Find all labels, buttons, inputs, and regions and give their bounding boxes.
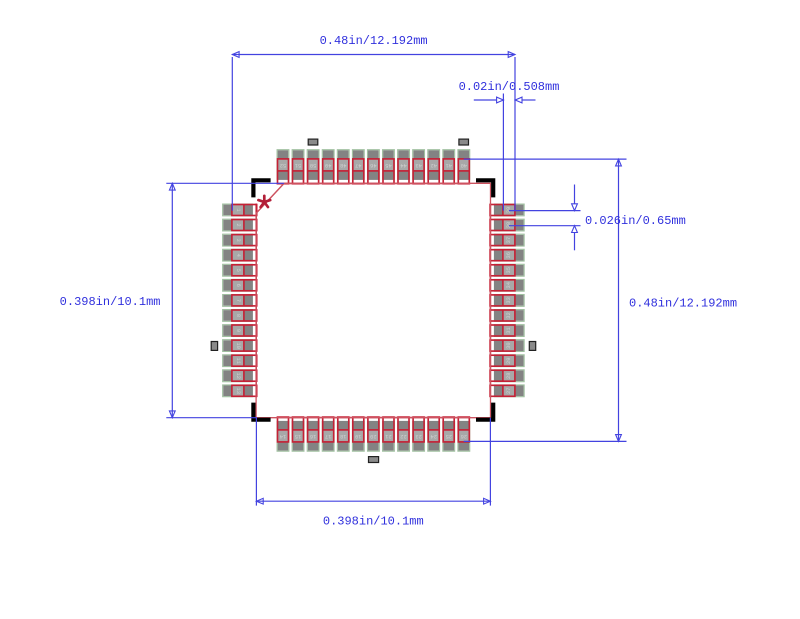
pad pin 29 (right) [490,355,524,367]
pad pin 34 (right) [490,279,524,291]
pad pin 35 (right) [490,264,524,276]
svg-text:21: 21 [385,433,391,439]
svg-text:40: 40 [461,162,467,168]
dimension top lead-span line [232,54,515,56]
svg-text:26: 26 [461,433,467,439]
dimension left body line [171,183,173,417]
svg-text:43: 43 [415,162,421,168]
pin row baseline top [277,183,471,185]
pad pin 2 (left) [223,219,257,231]
pad pin 33 (right) [490,295,524,307]
svg-text:36: 36 [506,252,512,258]
svg-text:3: 3 [235,238,241,241]
dimension top lead-span extension line right [514,57,516,211]
pad pin 9 (left) [223,325,257,337]
dimension pad-width arrow left [497,97,504,103]
svg-text:29: 29 [506,357,512,363]
pad pin 13 (left) [223,385,257,397]
svg-text:0.48in/12.192mm: 0.48in/12.192mm [629,297,737,311]
pad pin 44 (top) [398,150,410,184]
pad pin 25 (bottom) [443,417,455,451]
svg-text:33: 33 [506,297,512,303]
pin row baseline right [489,204,491,398]
dimension pitch extension line lower [509,225,581,227]
pad pin 6 (left) [223,279,257,291]
pad pin 24 (bottom) [428,417,440,451]
svg-text:41: 41 [446,162,452,168]
index square pin 50 (top) [308,139,318,145]
pad pin 32 (right) [490,310,524,322]
svg-text:12: 12 [235,373,241,379]
dimension left body extension line bottom [166,417,257,419]
pad pin 42 (top) [428,150,440,184]
svg-text:49: 49 [325,162,331,168]
svg-text:13: 13 [235,388,241,394]
pad pin 11 (left) [223,355,257,367]
svg-text:30: 30 [506,342,512,348]
pad pin 4 (left) [223,249,257,261]
pad pin 10 (left) [223,340,257,352]
pad pin 41 (top) [443,150,455,184]
dimension pitch line upper [574,185,576,204]
svg-text:24: 24 [430,433,436,439]
pad pin 23 (bottom) [413,417,425,451]
dimension pitch extension line upper [509,210,581,212]
pad pin 5 (left) [223,264,257,276]
pad pin 19 (bottom) [352,417,364,451]
pad pin 16 (bottom) [307,417,319,451]
svg-text:28: 28 [506,373,512,379]
svg-text:5: 5 [235,269,241,272]
pad pin 26 (bottom) [458,417,470,451]
svg-text:25: 25 [446,433,452,439]
pad pin 48 (top) [337,150,349,184]
dimension left arrow bottom [169,411,175,418]
dimension bottom body line [256,500,490,502]
svg-text:11: 11 [235,357,241,363]
pad pin 21 (bottom) [383,417,395,451]
pin-1 marker asterisk [258,196,270,207]
pad pin 31 (right) [490,325,524,337]
svg-text:8: 8 [235,314,241,317]
svg-text:46: 46 [370,162,376,168]
silkscreen corner mark bottom-left [251,403,270,422]
pad pin 17 (bottom) [322,417,334,451]
svg-text:16: 16 [310,433,316,439]
svg-text:0.48in/12.192mm: 0.48in/12.192mm [320,34,428,48]
pad pin 40 (top) [458,150,470,184]
svg-text:2: 2 [235,223,241,226]
svg-text:38: 38 [506,222,512,228]
svg-text:19: 19 [355,433,361,439]
svg-text:9: 9 [235,329,241,332]
pad pin 50 (top) [307,150,319,184]
svg-text:0.026in/0.65mm: 0.026in/0.65mm [585,214,686,228]
svg-text:47: 47 [355,162,361,168]
svg-text:23: 23 [415,433,421,439]
svg-text:0.02in/0.508mm: 0.02in/0.508mm [459,80,560,94]
index square pin 40 (top) [459,139,469,145]
dimension bottom arrow right [484,498,491,504]
svg-text:6: 6 [235,284,241,287]
pad pin 45 (top) [383,150,395,184]
svg-text:14: 14 [280,433,286,439]
svg-text:35: 35 [506,267,512,273]
pad pin 8 (left) [223,310,257,322]
pad pin 52 (top) [277,150,289,184]
svg-text:34: 34 [506,282,512,288]
dimension right arrow top [616,159,622,166]
svg-text:27: 27 [506,388,512,394]
svg-text:48: 48 [340,162,346,168]
pad pin 51 (top) [292,150,304,184]
dimension pad-width arrow right [515,97,522,103]
svg-text:42: 42 [430,162,436,168]
dimension pad-width extension line [502,94,504,211]
svg-text:44: 44 [400,162,406,168]
svg-text:1: 1 [235,208,241,211]
pad pin 38 (right) [490,219,524,231]
dimension top lead-span extension line left [231,57,233,211]
dimension left body extension line top [166,182,284,184]
dimension top arrow left [232,52,239,58]
dimension pitch line lower [574,233,576,251]
svg-text:51: 51 [295,162,301,168]
svg-text:50: 50 [310,162,316,168]
pad pin 27 (right) [490,385,524,397]
svg-text:52: 52 [280,162,286,168]
pad pin 1 (left) [223,204,257,216]
svg-text:20: 20 [370,433,376,439]
index square pin 20 (bottom) [369,457,379,463]
pin row baseline left [255,204,257,398]
svg-text:0.398in/10.1mm: 0.398in/10.1mm [60,295,161,309]
pad pin 49 (top) [322,150,334,184]
pad pin 43 (top) [413,150,425,184]
silkscreen corner mark bottom-right [476,403,495,422]
dimension right arrow bottom [616,435,622,442]
pad pin 15 (bottom) [292,417,304,451]
silkscreen corner mark top-left [251,178,270,197]
svg-text:22: 22 [400,433,406,439]
dimension pitch arrow upper [572,204,578,211]
svg-text:7: 7 [235,299,241,302]
svg-text:18: 18 [340,433,346,439]
pad pin 37 (right) [490,234,524,246]
pad pin 18 (bottom) [337,417,349,451]
pad pin 22 (bottom) [398,417,410,451]
dimension pad-width line right [522,99,535,101]
pad pin 3 (left) [223,234,257,246]
dimension pitch arrow lower [572,226,578,233]
dimension right lead-span extension line bottom [464,440,627,442]
pin row baseline bottom [277,417,471,419]
pad pin 39 (right) [490,204,524,216]
dimension bottom arrow left [256,498,263,504]
pad pin 47 (top) [352,150,364,184]
pad pin 46 (top) [368,150,380,184]
dimension bottom body extension line right [489,418,491,506]
svg-text:32: 32 [506,312,512,318]
svg-text:4: 4 [235,254,241,257]
svg-text:17: 17 [325,433,331,439]
index square pin 10 (left) [211,342,217,351]
svg-text:15: 15 [295,433,301,439]
dimension bottom body extension line left [255,418,257,506]
svg-text:10: 10 [235,342,241,348]
pad pin 20 (bottom) [368,417,380,451]
dimension pad-width line left [474,99,497,101]
index square pin 30 (right) [529,342,535,351]
svg-text:31: 31 [506,327,512,333]
pad pin 7 (left) [223,295,257,307]
pad pin 14 (bottom) [277,417,289,451]
silkscreen corner mark top-right [476,178,495,197]
dimension left arrow top [169,183,175,190]
svg-text:37: 37 [506,237,512,243]
pin-1 chamfer line [256,183,284,213]
dimension right lead-span extension line top [464,158,627,160]
dimension top arrow right [508,52,515,58]
dimension right lead-span line [618,159,620,441]
svg-text:45: 45 [385,162,391,168]
svg-text:0.398in/10.1mm: 0.398in/10.1mm [323,515,424,529]
pad pin 12 (left) [223,370,257,382]
pad pin 36 (right) [490,249,524,261]
pad pin 28 (right) [490,370,524,382]
pad pin 30 (right) [490,340,524,352]
component body outline [256,183,490,417]
